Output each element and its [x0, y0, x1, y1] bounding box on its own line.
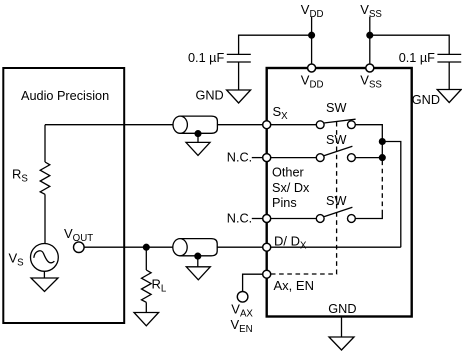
- source VS sine wave: [34, 251, 55, 263]
- coax cable 2 end ellipse: [173, 239, 187, 256]
- switch SW3 left contact: [316, 215, 324, 223]
- wire: N.C. label stub 2: [252, 218, 263, 220]
- terminal VOUT circle: [74, 242, 85, 253]
- pin VSS: [366, 64, 374, 72]
- wire: D/Dx pin to right column: [271, 246, 401, 248]
- pin Ax,EN: [263, 270, 271, 278]
- wire: VDD node to C1: [239, 35, 312, 54]
- resistor RL zigzag: [142, 270, 152, 302]
- ground symbol: IC GND: [329, 337, 354, 350]
- junction: coax 1 shield: [195, 131, 201, 137]
- wire: VSS node to C2: [370, 35, 449, 54]
- wire: VAX/VEN to Ax,EN pin: [243, 274, 263, 291]
- wire: link to D/Dx column: [382, 142, 401, 248]
- svg-text:SW: SW: [326, 194, 346, 208]
- terminal VAX/VEN circle: [237, 292, 248, 303]
- switch SW2 lever: [324, 146, 353, 156]
- wire: VSS supply vertical: [369, 17, 371, 65]
- wire: VDD supply vertical: [311, 17, 313, 65]
- svg-text:Other: Other: [272, 166, 305, 180]
- wire: N.C. label stub 1: [252, 157, 263, 159]
- svg-text:Ax, EN: Ax, EN: [274, 278, 314, 293]
- svg-text:N.C.: N.C.: [227, 212, 252, 226]
- wire: VOUT to D/Dx (row y=247.2): [84, 246, 263, 248]
- svg-text:0.1 µF: 0.1 µF: [399, 51, 435, 65]
- ground symbol: RL: [134, 313, 159, 326]
- wire: SW3 output corner: [355, 214, 382, 219]
- svg-text:0.1 µF: 0.1 µF: [188, 51, 224, 65]
- svg-text:GND: GND: [412, 93, 440, 107]
- pin N.C. 2: [263, 215, 271, 223]
- wire: C2 to ground: [448, 62, 450, 90]
- ground symbol: coax 1: [186, 142, 210, 155]
- svg-text:Pins: Pins: [272, 196, 297, 210]
- box: switch IC (DUT): [267, 68, 412, 317]
- svg-text:GND: GND: [328, 302, 356, 316]
- wire: IC GND to ground: [341, 317, 343, 338]
- wire: SW2 to bus: [355, 157, 382, 159]
- junction: VDD node: [309, 32, 315, 38]
- capacitor C2 0.1uF top plate: [437, 53, 461, 55]
- capacitor C2 0.1uF bottom plate: [437, 61, 461, 63]
- coax cable 1 body: [180, 116, 217, 133]
- svg-text:Audio Precision: Audio Precision: [21, 89, 109, 103]
- pin Sx: [263, 121, 271, 129]
- wire: dashed control from Ax,EN pin: [271, 122, 337, 274]
- svg-text:Sx/ Dx: Sx/ Dx: [272, 181, 310, 195]
- switch SW3 lever: [324, 207, 353, 217]
- switch SW2 right contact: [348, 154, 356, 162]
- capacitor C1 0.1uF bottom plate: [227, 61, 251, 63]
- svg-text:GND: GND: [196, 89, 224, 103]
- wire: N.C. pin 2 to SW3: [271, 218, 317, 220]
- switch SW2 left contact: [316, 154, 324, 162]
- pin N.C. 1: [263, 154, 271, 162]
- wire: C1 to ground: [238, 62, 240, 90]
- resistor RS zigzag: [40, 162, 50, 194]
- wire: N.C. pin 1 to SW2: [271, 157, 317, 159]
- source VS circle: [31, 244, 59, 272]
- wire: Sx pin to SW1: [271, 124, 317, 126]
- svg-text:SW: SW: [326, 133, 346, 147]
- wire: RL branch vertical: [145, 247, 147, 270]
- wire: SW1 to right bus: [355, 125, 382, 158]
- pin VDD: [308, 64, 316, 72]
- box: Audio Precision analyzer: [3, 68, 124, 323]
- junction: VSS node: [367, 32, 373, 38]
- switch SW1 right contact: [348, 121, 356, 129]
- svg-text:N.C.: N.C.: [227, 151, 252, 165]
- junction: bus to D/Dx link: [379, 139, 385, 145]
- switch SW1 lever: [324, 119, 356, 123]
- switch SW1 left contact: [316, 121, 324, 129]
- ground symbol: C1: [227, 90, 251, 103]
- wire: RS to VS: [44, 194, 46, 243]
- wire: RL to ground: [145, 302, 147, 312]
- junction: RL tap: [143, 244, 149, 250]
- wire: coax 2 shield to ground: [197, 256, 199, 267]
- wire: dashed bus to SW3: [381, 161, 383, 215]
- junction: SW2 output on bus: [379, 155, 385, 161]
- ground symbol: VS: [31, 278, 58, 292]
- junction: coax 2 shield: [195, 253, 201, 259]
- svg-text:SW: SW: [326, 101, 346, 115]
- capacitor C1 0.1uF top plate: [227, 53, 251, 55]
- coax cable 2 body: [180, 239, 217, 256]
- switch SW3 right contact: [348, 215, 356, 223]
- wire: Rs branch vertical: [44, 125, 46, 162]
- coax cable 1 end ellipse: [173, 116, 187, 133]
- pin D/Dx: [263, 243, 271, 251]
- wire: coax 1 shield to ground: [197, 134, 199, 143]
- wire: source output to Sx (row y=124.7): [45, 124, 263, 126]
- ground symbol: C2: [437, 90, 461, 103]
- wire: VS to ground: [43, 271, 45, 278]
- ground symbol: coax 2: [186, 267, 210, 280]
